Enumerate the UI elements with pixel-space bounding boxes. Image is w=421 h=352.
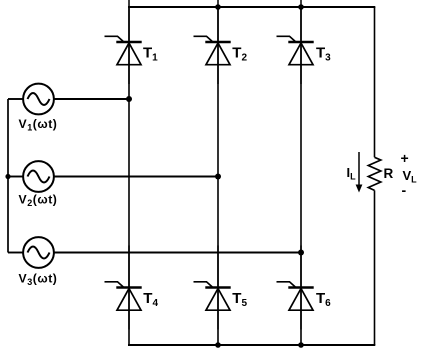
svg-text:T2: T2 <box>232 45 247 64</box>
svg-text:T1: T1 <box>143 45 158 64</box>
voltage source V2 <box>23 161 54 192</box>
node: neutral junction at V2 <box>5 174 10 179</box>
wire: bridge leg 2 (T2/T5 branch) <box>217 7 219 345</box>
svg-text:T6: T6 <box>316 290 331 309</box>
wire: V1 right lead to leg 1 <box>54 98 129 100</box>
wire: bridge leg 1 (T1/T4 branch) <box>128 7 130 345</box>
svg-text:IL: IL <box>347 165 357 182</box>
thyristor T4 <box>105 246 142 330</box>
thyristor T5 <box>194 246 231 330</box>
current arrow IL <box>356 152 363 193</box>
wire: top DC rail <box>128 6 375 8</box>
wire: bridge leg 3 (T3/T6 branch) <box>300 7 302 345</box>
thyristor T6 <box>277 246 314 330</box>
node: V3 to leg 3 junction <box>298 250 304 256</box>
svg-text:T5: T5 <box>232 290 247 309</box>
svg-text:T4: T4 <box>143 290 158 309</box>
svg-text:T3: T3 <box>316 45 331 64</box>
wire: V2 right lead to leg 2 <box>54 176 218 178</box>
resistor R (load) <box>368 157 381 190</box>
wire: bottom DC rail <box>128 344 375 346</box>
node: top rail leg 2 junction <box>215 4 221 10</box>
node: bottom rail leg 3 junction <box>298 342 304 348</box>
voltage source V3 <box>23 237 54 268</box>
node: V1 to leg 1 junction <box>126 96 132 102</box>
wire: V1 left lead <box>8 98 23 100</box>
voltage source V1 <box>23 84 54 115</box>
node: bottom rail leg 2 junction <box>215 342 221 348</box>
svg-text:V2(ωt): V2(ωt) <box>19 192 58 208</box>
thyristor T1 <box>105 0 142 84</box>
wire: neutral bus on far left <box>7 99 9 253</box>
svg-text:V1(ωt): V1(ωt) <box>19 117 58 133</box>
node: top rail leg 3 junction <box>298 4 304 10</box>
node: V2 to leg 2 junction <box>215 174 221 180</box>
svg-text:V3(ωt): V3(ωt) <box>19 271 58 287</box>
wire: V2 left lead <box>8 176 23 178</box>
thyristor T2 <box>194 0 231 84</box>
wire: V3 right lead to leg 3 <box>54 252 301 254</box>
svg-text:+: + <box>401 150 409 166</box>
svg-text:R: R <box>384 166 394 181</box>
thyristor T3 <box>277 0 314 84</box>
svg-text:-: - <box>402 182 407 198</box>
wire: load branch upper (top rail to resistor) <box>374 7 376 157</box>
wire: load branch lower (resistor to bottom rail) <box>374 190 376 345</box>
wire: V3 left lead <box>8 252 23 254</box>
